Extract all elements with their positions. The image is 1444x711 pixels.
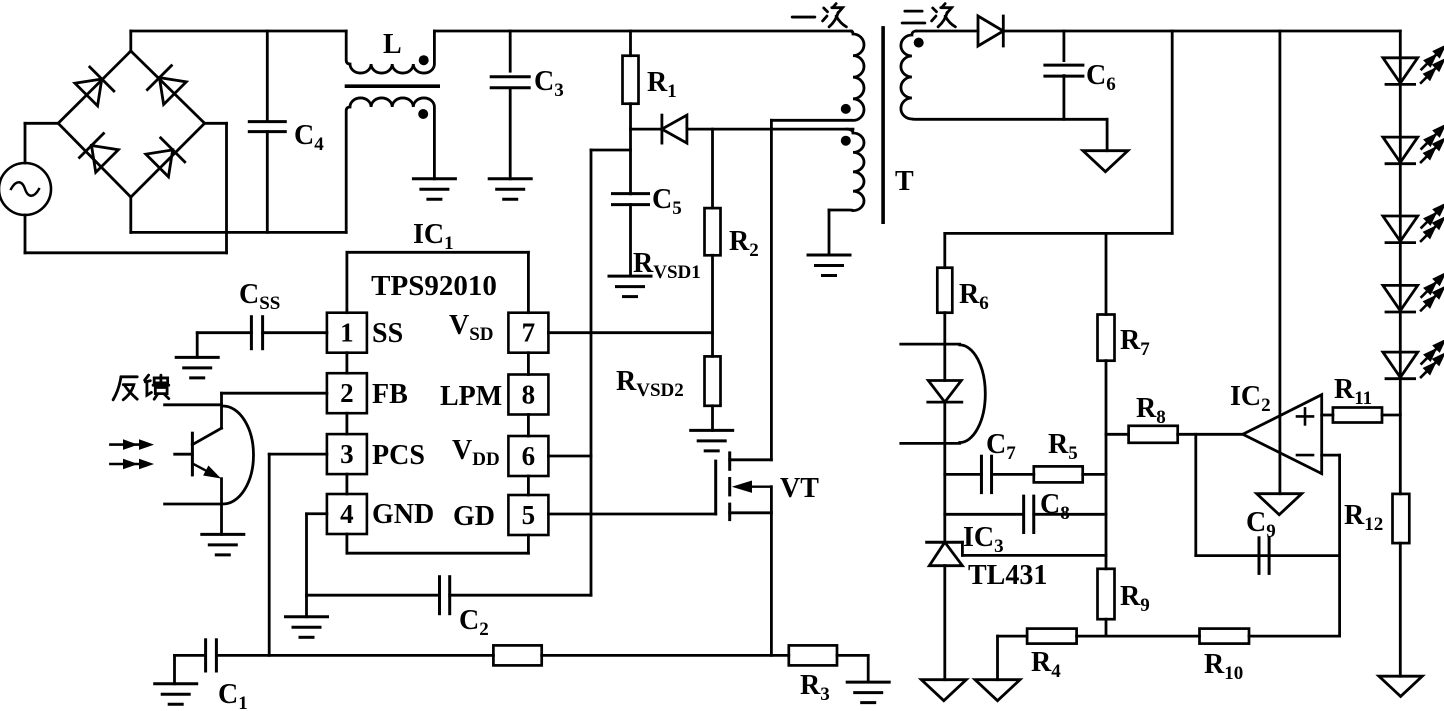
svg-text:2: 2 bbox=[340, 378, 354, 408]
svg-text:VT: VT bbox=[780, 473, 819, 504]
svg-text:1: 1 bbox=[340, 318, 354, 348]
svg-text:6: 6 bbox=[522, 441, 536, 471]
svg-text:L: L bbox=[383, 29, 402, 60]
svg-text:SS: SS bbox=[372, 318, 403, 349]
svg-text:TL431: TL431 bbox=[968, 560, 1047, 591]
svg-text:GD: GD bbox=[453, 501, 495, 532]
svg-text:GND: GND bbox=[372, 499, 434, 530]
svg-text:FB: FB bbox=[372, 379, 408, 410]
svg-text:TPS92010: TPS92010 bbox=[371, 270, 497, 302]
svg-text:5: 5 bbox=[522, 500, 536, 530]
svg-text:LPM: LPM bbox=[440, 381, 502, 412]
svg-text:4: 4 bbox=[340, 499, 354, 529]
svg-text:T: T bbox=[895, 166, 914, 197]
svg-text:8: 8 bbox=[522, 380, 536, 410]
svg-text:3: 3 bbox=[340, 439, 354, 469]
svg-text:PCS: PCS bbox=[372, 440, 425, 471]
svg-text:7: 7 bbox=[522, 318, 536, 348]
